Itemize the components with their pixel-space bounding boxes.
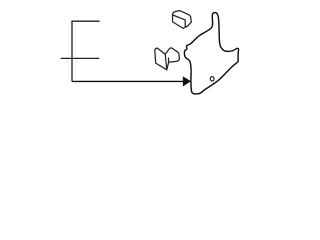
clip A (upper) outer outline [173, 11, 192, 29]
arrow leader line [72, 80, 183, 82]
clip B flap edge [168, 58, 170, 63]
clip A interior edges [173, 15, 186, 27]
bracket symbol: middle horizontal line [61, 57, 100, 59]
part outline (trim panel) [184, 13, 238, 94]
arrowhead [183, 77, 190, 86]
bracket symbol: vertical stem [71, 21, 73, 81]
bracket symbol: top horizontal line [71, 20, 99, 22]
clip B (lower) outer outline [155, 48, 180, 70]
hole in part [210, 77, 214, 81]
clip B interior edges [165, 54, 167, 70]
